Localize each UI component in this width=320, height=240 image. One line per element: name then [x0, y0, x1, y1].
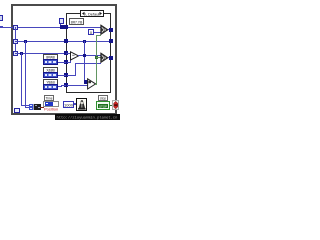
wire stop to conditional terminal [110, 105, 113, 106]
wire vertical linking N1,N2,N3 [15, 27, 16, 54]
stop boolean terminal [96, 101, 110, 110]
comparison node input terminal [84, 80, 88, 84]
local variable label L3 [43, 79, 58, 85]
tunnel node N2 [13, 39, 18, 44]
local variable label L2 [43, 67, 58, 73]
case left border tunnel (LV3) [64, 83, 68, 87]
label box inside case top [69, 18, 84, 25]
case structure border [66, 13, 111, 93]
svg-text:stop: stop [100, 97, 106, 101]
wire W2 across to case right tunnel [15, 41, 111, 42]
svg-text:Position: Position [44, 107, 58, 112]
case left border tunnel (W2) [64, 39, 68, 43]
svg-text:0, Default: 0, Default [84, 11, 102, 16]
local variable box B3 [43, 84, 66, 90]
wire W1 from left edge into case [0, 26, 101, 28]
local variable box B2 [43, 72, 66, 78]
local variable label L1 [43, 54, 58, 60]
while loop border [11, 4, 117, 115]
wire W3 stub into convert triangle [66, 53, 71, 54]
tunnel node N1 on loop border [13, 25, 18, 30]
svg-text:1000: 1000 [64, 102, 74, 107]
tunnel node N3 [13, 51, 18, 56]
small local variable box above W1 near case border [59, 18, 64, 29]
wire LV3 tunnel to comparison node [67, 85, 88, 86]
index/bundle node at loop bottom [29, 104, 41, 110]
junction on W3 at x=21 with drop wire to bottom cluster [20, 52, 30, 106]
junction on W2 at x=84 with vertical drop to comparison [83, 40, 86, 81]
svg-text:Time: Time [46, 97, 53, 101]
property node label [44, 95, 54, 101]
svg-text:STOP: STOP [99, 104, 107, 108]
case right border tunnel (S1 out) [109, 28, 113, 32]
select node S2 [101, 53, 109, 63]
numeric constant 0 [88, 29, 101, 35]
wire S2 output [108, 57, 111, 58]
svg-text:8R7.YB: 8R7.YB [71, 20, 83, 24]
comparison triangle node (equal?) [88, 79, 96, 89]
case left border tunnel (W1) [64, 25, 68, 29]
wait (ms) metronome icon [76, 98, 87, 111]
red wire to property node [40, 107, 44, 108]
case left border tunnel (LV2) [64, 73, 68, 77]
case selector label "0, Default" [80, 10, 104, 17]
loop conditional terminal [112, 100, 119, 110]
local variable box B1 [43, 59, 66, 65]
wire convert output to select2 [78, 55, 101, 56]
case left border tunnel (W3) [64, 51, 68, 55]
green boolean wire from comparison up to select nodes [95, 35, 101, 85]
wire LV2 tunnel up to select2 lower input [67, 63, 101, 76]
property node icon with blue band [43, 101, 59, 107]
wire S1 output [108, 29, 111, 30]
svg-text:htto://ziuyuanmin.planet.cn: htto://ziuyuanmin.planet.cn [57, 116, 119, 120]
select node S1 [101, 25, 109, 35]
numeric constant 1000 [63, 101, 77, 108]
case right border tunnel (W2) [109, 39, 113, 43]
junction on W2 at x=25 with drop wire to bottom cluster [24, 40, 30, 108]
iteration terminal i [14, 108, 20, 113]
wire W3 to case left tunnel [15, 53, 66, 54]
case left border tunnel (LV1) [64, 60, 68, 64]
case right border tunnel (S2 out) [109, 56, 113, 60]
stop button label [98, 95, 108, 101]
wire LV1 tunnel to convert triangle [67, 59, 71, 63]
convert triangle node [71, 52, 79, 60]
watermark band [55, 114, 120, 121]
terminal fragment at left image edge [0, 15, 3, 21]
